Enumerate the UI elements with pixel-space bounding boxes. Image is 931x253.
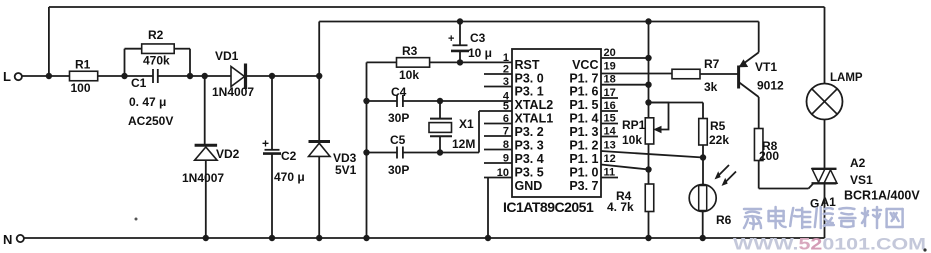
VT1 emitter arrow [740,60,748,67]
wire IC left pin 2 stub [484,73,512,75]
svg-text:3k: 3k [704,80,718,94]
resistor R5 [699,119,708,146]
svg-text:XTAL2: XTAL2 [515,98,554,112]
svg-text:9: 9 [503,153,509,165]
node R2 left junction [121,73,127,79]
svg-text:5V1: 5V1 [335,163,357,177]
resistor R1 [70,71,98,81]
svg-text:9012: 9012 [757,79,784,93]
svg-text:17: 17 [604,87,616,99]
svg-text:R6: R6 [716,213,732,227]
wire VCC riser [318,22,320,77]
svg-text:12: 12 [604,153,616,165]
node divider junction [700,154,706,160]
wire pin 15 stub [601,123,618,125]
svg-text:10 μ: 10 μ [468,46,492,60]
svg-text:LAMP: LAMP [830,72,863,84]
watermark chinese characters [744,209,761,229]
node VCC riser junction [316,73,322,79]
svg-text:GND: GND [515,179,543,193]
svg-text:19: 19 [604,61,616,73]
resistor R2 [142,44,175,54]
wire N rail [24,237,825,239]
diode VD1 [231,67,245,87]
svg-text:18: 18 [604,74,616,86]
svg-text:P3. 5: P3. 5 [515,166,544,180]
svg-text:C3: C3 [470,31,486,45]
svg-text:VD1: VD1 [215,49,239,63]
node GND rail junction [485,235,491,241]
svg-text:AC250V: AC250V [128,114,173,128]
svg-text:5: 5 [503,101,509,113]
node RST/C3 junction [457,59,463,65]
wire R5 bottom to R6 [702,145,704,185]
wire top rail [49,6,825,8]
svg-text:15: 15 [604,113,616,125]
svg-text:200: 200 [759,149,779,163]
svg-text:470 μ: 470 μ [274,170,305,184]
wire pin 14 stub [601,136,618,138]
svg-text:10k: 10k [399,68,419,82]
svg-text:R1: R1 [75,58,91,72]
resistor R8 [754,129,763,161]
crystal X1 [439,101,441,119]
svg-text:4. 7k: 4. 7k [607,200,634,214]
svg-text:10: 10 [497,167,509,179]
zener diode VD3 [318,76,320,140]
svg-text:C2: C2 [281,149,297,163]
terminal N [17,235,24,242]
corner period [923,248,926,251]
svg-text:R7: R7 [704,57,720,71]
svg-text:12M: 12M [452,137,475,151]
svg-text:0. 47 μ: 0. 47 μ [129,95,166,109]
svg-text:1N4007: 1N4007 [212,85,254,99]
wire P1.6 pin 18 stub to VCC column [601,84,649,86]
wire pin 16 stub [601,110,618,112]
node junction at top-rail tap [46,73,52,79]
wire IC left pin 10 stub [484,177,512,179]
wire R7 to VT1 base [700,73,738,75]
node RP1/R4/pin12 junction [645,166,651,172]
svg-text:BCR1A/400V: BCR1A/400V [844,189,920,203]
svg-text:P3. 1: P3. 1 [515,85,544,99]
wire top rail drop to lamp [824,7,826,84]
svg-text:X1: X1 [459,117,474,131]
svg-text:30P: 30P [388,111,409,125]
svg-text:XTAL1: XTAL1 [515,112,554,126]
wire riser to top rail [48,7,50,76]
transistor VT1 base bar [737,66,740,89]
node pin18 junction [645,82,651,88]
svg-text:RST: RST [515,58,540,72]
lamp [807,84,843,120]
wire IC left pin 6 stub [484,123,512,125]
svg-text:10k: 10k [622,133,642,147]
svg-text:20: 20 [604,47,616,59]
svg-text:VT1: VT1 [755,60,777,74]
wire R6 to N rail [702,211,704,239]
svg-text:14: 14 [604,126,617,138]
svg-text:P1. 6: P1. 6 [569,85,598,99]
svg-text:C5: C5 [390,133,406,147]
wire triac to N rail [824,183,826,238]
svg-text:RP1: RP1 [622,118,646,132]
wire pin 17 stub [601,97,618,99]
wire RP1 wiper loop [649,103,669,130]
svg-text:P3. 3: P3. 3 [515,139,544,153]
wire RST row [367,61,397,63]
wire VCC pin 20 stub [601,57,649,59]
node C2 top junction [269,73,275,79]
transistor VT1 collector [739,82,759,97]
svg-text:13: 13 [604,140,616,152]
svg-text:P3. 7: P3. 7 [569,179,598,193]
svg-text:R3: R3 [402,44,418,58]
node VD3 bottom junction [316,235,322,241]
svg-text:R5: R5 [710,119,726,133]
photoresistor R6 [689,185,716,212]
svg-text:30P: 30P [388,163,409,177]
svg-text:IC1AT89C2051: IC1AT89C2051 [503,199,594,215]
wire RP1 bottom to R4 [648,144,650,184]
wire C1 to VD1 [158,75,231,77]
svg-text:P1. 7: P1. 7 [569,72,598,86]
svg-text:P3. 2: P3. 2 [515,125,544,139]
wire R8 to triac gate [758,161,760,189]
resistor R4 [645,184,654,212]
node VD2 top junction [202,73,208,79]
RP1 wiper arrow [655,127,662,133]
wire C5 row [367,152,398,154]
wire IC left pin 8 stub [484,149,512,151]
triac VS1 [812,168,837,170]
wire IC left pin 3 stub [484,86,512,88]
svg-text:2: 2 [503,64,509,76]
wire R4 to N rail [648,212,650,239]
svg-text:WWW.520101.COM: WWW.520101.COM [733,236,926,253]
node C2 bottom junction [269,235,275,241]
transistor VT1 emitter [758,22,760,53]
capacitor C3 [459,22,461,46]
svg-text:100: 100 [71,81,91,95]
node R2 right junction [187,73,193,79]
svg-text:P1. 3: P1. 3 [569,125,598,139]
node R6 bottom junction [700,235,706,241]
svg-text:8: 8 [503,139,509,151]
wire VCC rail [319,21,759,23]
wire R1 to C1 block [98,75,153,77]
capacitor C1 [152,69,154,83]
node VCC rail junction [645,18,651,24]
wire pin 12 to RP1 bottom [601,165,649,170]
svg-text:P1. 0: P1. 0 [569,166,598,180]
node VD2 bottom junction [203,235,209,241]
node RP1 top junction [645,99,651,105]
speck [135,218,138,221]
wire ground column x366 [366,62,368,238]
IC U1 AT89C2051 body [512,49,601,197]
node crystal bottom junction [437,149,443,155]
node ground column bottom junction [363,235,369,241]
wire R2 left riser [124,49,126,76]
wire IC left pin 9 stub [484,162,512,164]
node C5 row junction on ground column [363,149,369,155]
svg-text:P1. 5: P1. 5 [569,98,598,112]
svg-text:P1. 4: P1. 4 [569,112,598,126]
wire XTAL1 riser [478,111,480,153]
resistor R3 [397,58,430,68]
svg-text:C1: C1 [131,76,147,90]
svg-text:7: 7 [503,126,509,138]
node C3 top junction [457,18,463,24]
wire lamp to triac [824,120,826,169]
wire pin 13 to divider junction [601,151,703,158]
svg-text:11: 11 [604,167,616,179]
svg-text:A2: A2 [850,156,866,170]
svg-text:1N4007: 1N4007 [182,171,224,185]
svg-text:P3. 0: P3. 0 [515,72,544,86]
diode VD2 [204,76,206,144]
svg-text:R2: R2 [148,28,164,42]
wire R2 right riser [174,48,190,50]
svg-text:N: N [3,232,12,247]
wire P1.7 pin 19 to R7 [601,73,672,75]
node crystal top junction [437,98,443,104]
terminal L [15,73,22,80]
wire VCC column [648,22,650,118]
capacitor C2 [271,76,273,150]
svg-text:3: 3 [503,76,509,88]
wire VCC to R5 top [649,102,704,104]
svg-text:+: + [448,33,454,45]
node pin20 junction [645,55,651,61]
svg-text:1: 1 [503,52,509,64]
svg-text:P1. 1: P1. 1 [569,152,598,166]
wire IC left pin 7 stub [484,135,512,137]
svg-text:16: 16 [604,100,616,112]
resistor R7 [672,69,700,79]
svg-text:VCC: VCC [572,58,598,72]
wire L to R1 [22,75,70,77]
svg-text:C4: C4 [391,85,407,99]
capacitor C4 [396,95,398,107]
light arrows into R6 [717,165,730,178]
capacitor C5 [396,147,398,159]
wire GND pin riser [487,178,489,239]
wire pin 11 stub [601,177,618,179]
svg-text:P1. 2: P1. 2 [569,139,598,153]
svg-text:P3. 4: P3. 4 [515,152,544,166]
wire VD1 to VCC riser [247,75,319,77]
svg-text:VD2: VD2 [216,147,240,161]
node C4 row junction on ground column [363,98,369,104]
potentiometer RP1 [645,118,654,144]
svg-text:22k: 22k [709,133,729,147]
svg-text:L: L [3,69,11,84]
svg-text:VS1: VS1 [850,173,873,187]
svg-text:6: 6 [503,113,509,125]
svg-text:470k: 470k [143,54,170,68]
node R4 bottom junction [645,235,651,241]
svg-text:+: + [262,137,269,151]
wire C4 row [367,100,398,102]
